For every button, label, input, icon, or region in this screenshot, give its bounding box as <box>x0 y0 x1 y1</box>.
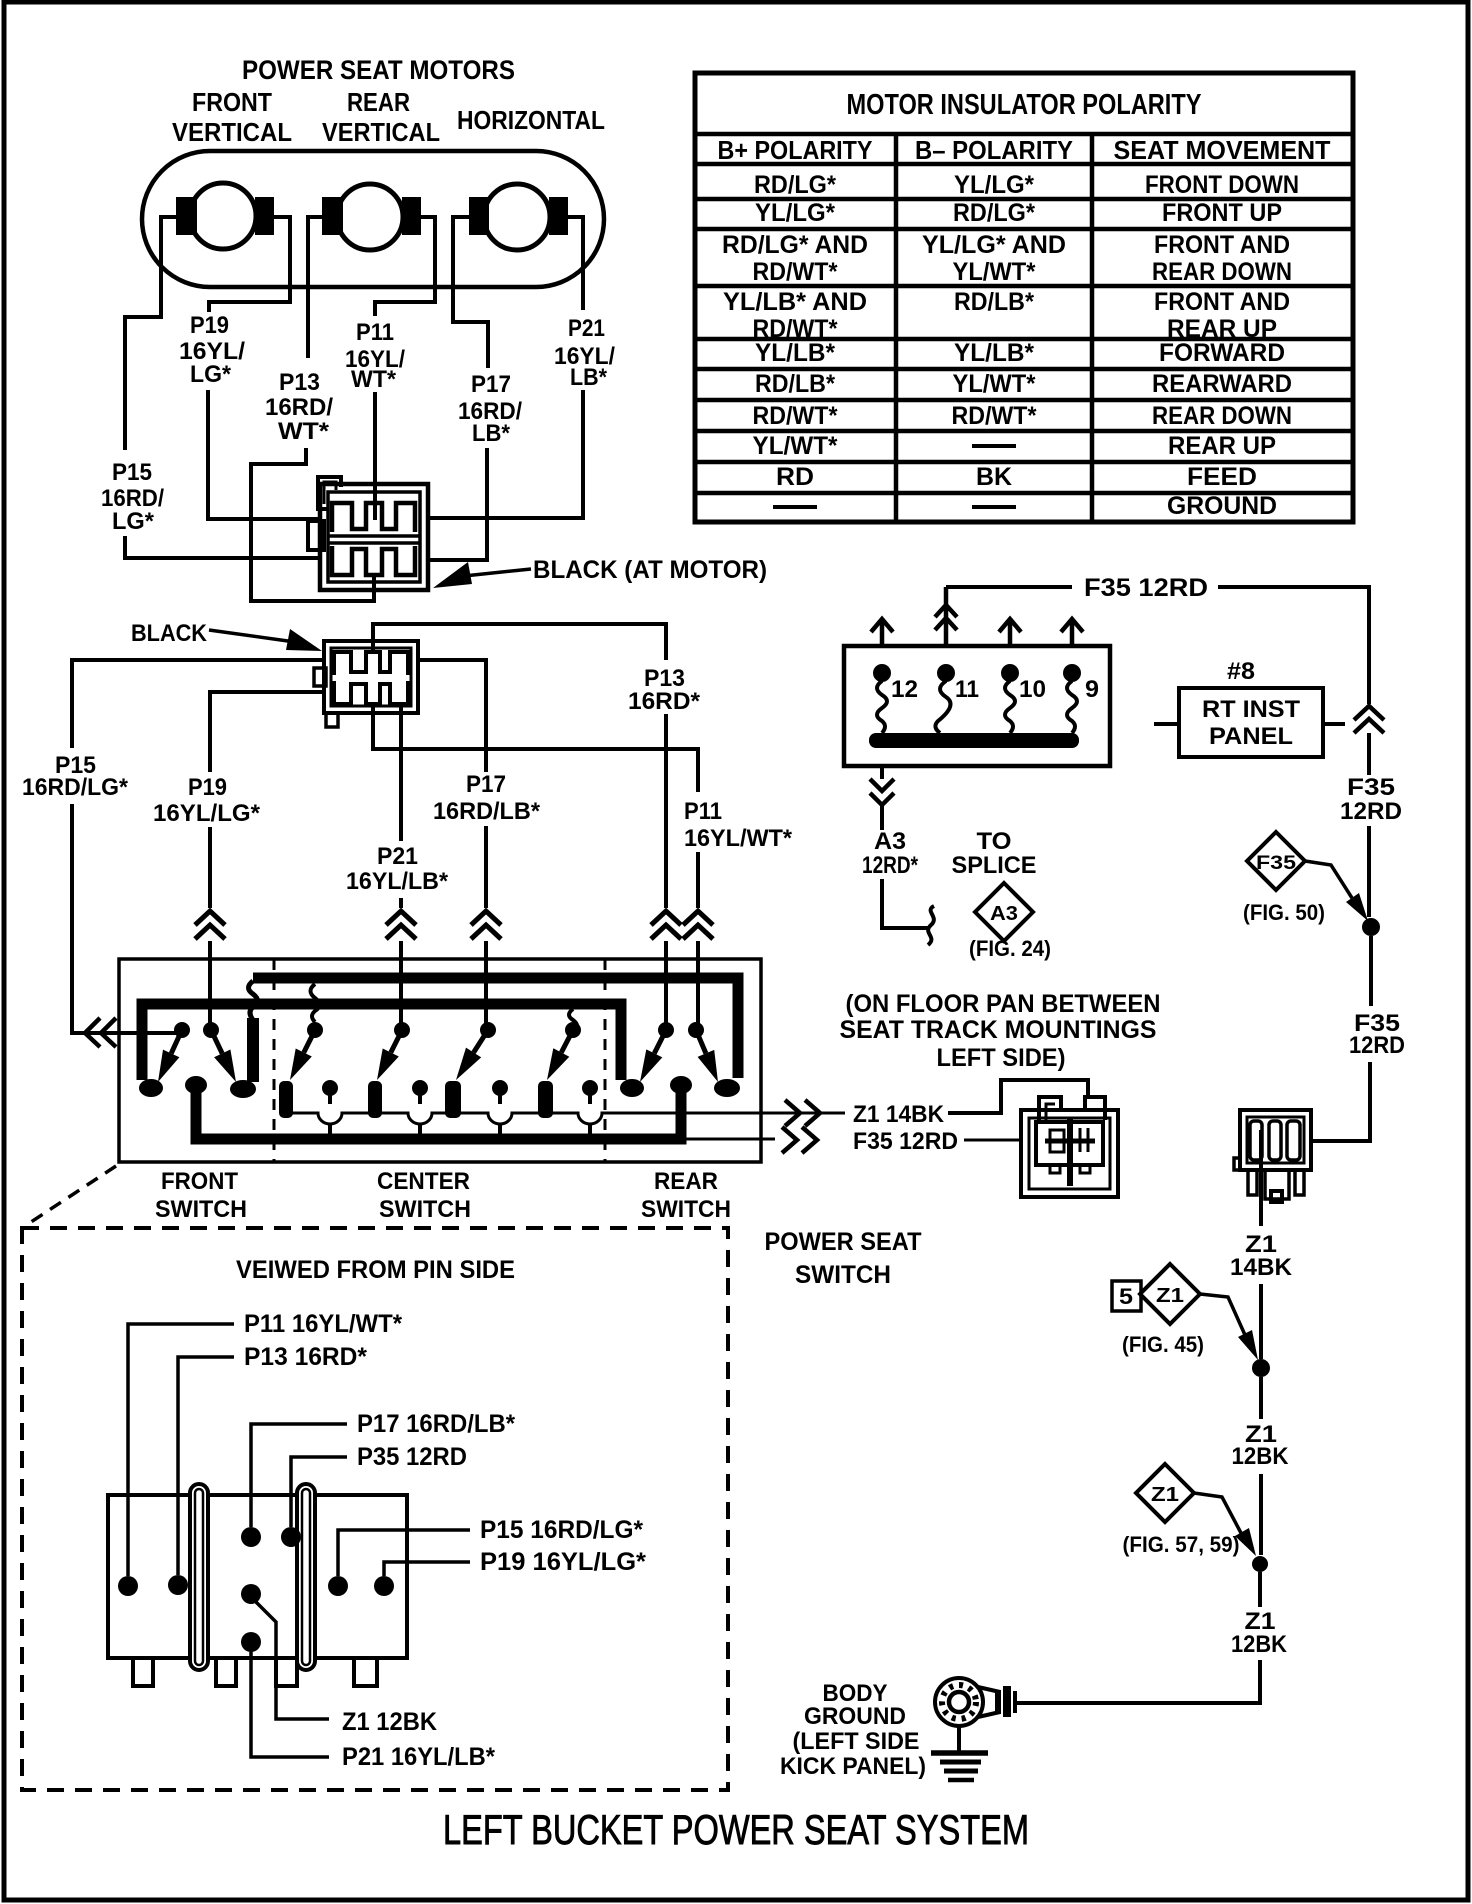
svg-text:POWER SEAT: POWER SEAT <box>765 1228 922 1256</box>
pin-side connector divider slot right <box>297 1484 315 1670</box>
svg-text:YL/LB*: YL/LB* <box>954 339 1034 367</box>
switch pole 6 arrow <box>561 1033 571 1053</box>
arrow Z1 second diamond to junction <box>1194 1493 1241 1533</box>
wire P15 motor1 left to connector C1 <box>125 217 322 558</box>
switch pole 8 arrow <box>697 1033 706 1054</box>
wire P17 motor3 left to connector C1 <box>426 217 488 560</box>
chevrons on Z1 14BK <box>785 1100 820 1126</box>
connector C1 inner shell <box>328 492 420 582</box>
floor pan connector left lock tab <box>1039 1097 1061 1120</box>
wire P19 motor1 right to connector C1 <box>208 217 322 519</box>
floor pan connector outer shell <box>1021 1110 1118 1197</box>
pin-side connector body <box>108 1495 407 1658</box>
svg-text:RD/WT*: RD/WT* <box>952 402 1037 430</box>
svg-text:(FIG. 45): (FIG. 45) <box>1122 1332 1204 1357</box>
svg-text:LEFT SIDE): LEFT SIDE) <box>937 1044 1066 1072</box>
motor M1 right brush <box>255 197 274 235</box>
svg-text:LB*: LB* <box>472 420 511 447</box>
svg-text:WT*: WT* <box>278 418 330 445</box>
svg-text:F35: F35 <box>1347 774 1395 801</box>
svg-text:YL/WT*: YL/WT* <box>953 258 1036 286</box>
pin 9 dot <box>1063 664 1081 682</box>
svg-text:12BK: 12BK <box>1232 1443 1290 1470</box>
arrow to connector C1 <box>433 562 472 588</box>
svg-text:RD: RD <box>776 463 814 491</box>
svg-text:12RD: 12RD <box>1340 798 1402 825</box>
svg-text:RD/LG* AND: RD/LG* AND <box>722 231 868 259</box>
motor M3 left brush <box>469 197 489 235</box>
junction connector slots <box>1250 1121 1262 1160</box>
svg-text:PANEL: PANEL <box>1209 723 1293 750</box>
svg-text:YL/LB*: YL/LB* <box>755 339 835 367</box>
svg-text:YL/WT*: YL/WT* <box>753 432 838 460</box>
connector C2 bottom pin comb <box>334 681 408 704</box>
connector C1 top-left tab <box>318 477 341 509</box>
bus B (second feed bus) <box>142 1004 621 1080</box>
pin 11 dot <box>937 664 955 682</box>
switch pole 4 arrow <box>391 1033 401 1053</box>
svg-text:12: 12 <box>891 676 918 703</box>
svg-text:SWITCH: SWITCH <box>795 1261 891 1289</box>
svg-text:P19: P19 <box>188 774 227 801</box>
motor housing (stadium enclosure) <box>142 151 604 287</box>
splice diamond F35 <box>1247 832 1305 890</box>
svg-text:P13 16RD*: P13 16RD* <box>244 1343 367 1371</box>
svg-text:5: 5 <box>1119 1284 1133 1309</box>
svg-text:(FIG. 24): (FIG. 24) <box>969 936 1051 961</box>
svg-text:RD/WT*: RD/WT* <box>753 258 838 286</box>
svg-text:RD/LG*: RD/LG* <box>754 171 836 199</box>
wire Z1 14BK from junction connector <box>1259 1130 1263 1359</box>
connector C1 bottom pin comb <box>332 546 415 575</box>
svg-text:P11 16YL/WT*: P11 16YL/WT* <box>244 1310 402 1338</box>
svg-text:16RD*: 16RD* <box>628 688 701 715</box>
ground tap dots and stubs <box>322 1080 338 1096</box>
svg-text:FORWARD: FORWARD <box>1159 339 1285 367</box>
wire P19 connector C2 to switch <box>210 692 324 1030</box>
svg-text:F35 12RD: F35 12RD <box>853 1128 958 1155</box>
up arrow pin 10 <box>999 619 1021 646</box>
svg-text:P19: P19 <box>190 312 229 339</box>
svg-text:SWITCH: SWITCH <box>379 1196 471 1223</box>
svg-text:LB*: LB* <box>570 364 608 391</box>
svg-text:P21: P21 <box>568 315 605 342</box>
wire Z1 12BK lower to body ground <box>1017 1572 1260 1703</box>
motor M2 rear vertical <box>337 184 403 250</box>
wire F35 vertical with chevrons <box>1354 706 1384 733</box>
svg-text:LG*: LG* <box>190 361 232 388</box>
junction dot Z1 upper <box>1252 1359 1270 1377</box>
svg-text:BLACK (AT MOTOR): BLACK (AT MOTOR) <box>533 556 767 584</box>
up arrow pin 9 <box>1061 619 1083 646</box>
svg-text:RD/WT*: RD/WT* <box>753 402 838 430</box>
wire P11 motor2 right to connector C1 top <box>375 217 435 520</box>
table grid lines <box>695 134 1353 493</box>
svg-text:WT*: WT* <box>351 366 397 393</box>
detail view dashed box <box>22 1228 728 1790</box>
svg-text:KICK PANEL): KICK PANEL) <box>780 1753 926 1780</box>
switch pole 5 arrow <box>474 1033 487 1053</box>
svg-text:10: 10 <box>1019 676 1046 703</box>
chevron on P15 (left) <box>85 1018 116 1047</box>
svg-text:LG*: LG* <box>112 508 155 535</box>
svg-text:Z1 12BK: Z1 12BK <box>342 1708 437 1736</box>
svg-text:YL/LG*: YL/LG* <box>755 199 835 227</box>
switch pole 3 arrow <box>304 1033 314 1053</box>
arrow to connector C2 <box>286 629 322 651</box>
pin P13 with leader <box>168 1575 188 1595</box>
wire Z1 14BK from switch <box>948 1080 1088 1113</box>
motor M1 front vertical <box>190 183 256 249</box>
svg-text:VERTICAL: VERTICAL <box>172 117 292 147</box>
arrow Z1 diamond to junction <box>1200 1294 1245 1335</box>
bus A tap squiggle to pole 3 <box>311 984 320 1022</box>
pin Z1 with leader <box>241 1584 261 1604</box>
wire P17 connector C2 to switch <box>418 660 486 1030</box>
svg-text:(FIG. 50): (FIG. 50) <box>1243 900 1325 925</box>
svg-text:Z1: Z1 <box>1156 1285 1184 1307</box>
junction connector (Z1/F35) outer shell <box>1240 1110 1311 1170</box>
floor pan connector right lock tab <box>1085 1097 1105 1120</box>
connector C2 left tab <box>314 668 326 686</box>
svg-text:BLACK: BLACK <box>131 620 208 647</box>
svg-text:RT INST: RT INST <box>1202 696 1300 723</box>
motor M3 right brush <box>549 197 568 235</box>
svg-text:FRONT: FRONT <box>161 1168 238 1195</box>
chevron on P11 <box>683 911 713 939</box>
svg-text:P19 16YL/LG*: P19 16YL/LG* <box>480 1548 646 1576</box>
svg-text:P11: P11 <box>356 319 394 346</box>
svg-text:REAR: REAR <box>654 1168 718 1195</box>
switch pole 2 arrow <box>212 1033 222 1054</box>
svg-text:REAR DOWN: REAR DOWN <box>1152 402 1292 430</box>
svg-text:P15: P15 <box>112 459 152 486</box>
wire P13 motor2 left to connector C1 bottom <box>251 217 374 601</box>
splice diamond A3 <box>975 883 1033 941</box>
connector C1 top pin comb <box>332 503 415 532</box>
svg-text:FRONT: FRONT <box>192 87 272 117</box>
wire F35 12RD top run <box>946 587 1369 704</box>
table row 10 <box>773 505 1016 509</box>
svg-text:P15 16RD/LG*: P15 16RD/LG* <box>480 1516 643 1544</box>
svg-text:12BK: 12BK <box>1231 1631 1288 1658</box>
body ground ring terminal <box>935 1678 983 1726</box>
power seat switch block outline <box>119 959 761 1162</box>
svg-text:SWITCH: SWITCH <box>155 1196 247 1223</box>
down chevrons on A3 wire <box>870 779 894 805</box>
bus A (top feed bus) <box>253 978 738 1078</box>
floor pan connector center cross <box>1067 1117 1073 1186</box>
svg-text:P17 16RD/LB*: P17 16RD/LB* <box>357 1410 515 1438</box>
pin P15 with leader <box>328 1576 348 1596</box>
ring terminal barrel and bolt <box>978 1687 1000 1717</box>
pin P19 with leader <box>374 1576 394 1596</box>
svg-text:VERTICAL: VERTICAL <box>322 117 440 147</box>
svg-text:RD/LG*: RD/LG* <box>953 199 1035 227</box>
connector C2 top pin comb <box>334 652 408 675</box>
wire P11 connector C2 to switch <box>373 702 698 1030</box>
svg-text:FRONT UP: FRONT UP <box>1162 199 1282 227</box>
floor pan connector inner shell <box>1029 1118 1110 1189</box>
motor M2 right brush <box>402 197 421 235</box>
Z1 contact line with hops <box>286 1113 845 1124</box>
svg-text:9: 9 <box>1085 676 1099 703</box>
center pole bottom terminals <box>279 1081 293 1118</box>
svg-text:RD/LB*: RD/LB* <box>954 288 1034 316</box>
svg-text:P11: P11 <box>684 798 722 825</box>
wire P13 connector C2 to switch <box>373 624 666 1030</box>
svg-text:FRONT AND: FRONT AND <box>1154 231 1290 259</box>
pin P21 with leader <box>241 1632 261 1652</box>
svg-text:TO: TO <box>977 828 1012 855</box>
up arrow pin 11 with chevrons <box>935 587 957 646</box>
svg-text:16RD/LG*: 16RD/LG* <box>22 774 129 801</box>
svg-text:P17: P17 <box>466 771 506 798</box>
svg-text:P13: P13 <box>279 369 320 396</box>
floor pan connector terminal block <box>1036 1122 1103 1165</box>
wire break squiggle <box>928 906 934 945</box>
chevron on P17 <box>471 911 501 939</box>
svg-text:(LEFT SIDE: (LEFT SIDE <box>793 1728 920 1755</box>
connector C2 inner shell <box>331 648 411 706</box>
junction connector inner shell <box>1247 1117 1304 1163</box>
switch section divider left (dashed) <box>273 959 276 1162</box>
pin-side connector feet <box>133 1658 153 1686</box>
floor pan connector feet <box>1050 1165 1060 1173</box>
wire F35 12RD from switch <box>681 1139 1021 1140</box>
dashed leader from switch block to detail box <box>28 1166 116 1224</box>
pin P17 with leader <box>241 1527 261 1547</box>
wire P21 motor3 right to connector C1 <box>426 217 583 518</box>
svg-text:FEED: FEED <box>1187 463 1257 491</box>
svg-text:12RD: 12RD <box>1349 1032 1405 1059</box>
splice diamond Z1 second <box>1136 1464 1194 1522</box>
seat harness connector box (pins 12-9) <box>844 646 1110 766</box>
svg-text:REARWARD: REARWARD <box>1152 370 1292 398</box>
switch pole 7 arrow <box>654 1033 664 1054</box>
motor M1 left brush <box>176 197 197 235</box>
svg-text:P17: P17 <box>471 371 511 398</box>
chevron on P13 <box>651 911 681 939</box>
bus B tap squiggle to pole 6 <box>569 1009 577 1031</box>
svg-text:RD/LB*: RD/LB* <box>755 370 835 398</box>
svg-text:REAR DOWN: REAR DOWN <box>1152 258 1292 286</box>
connector C2 black at switch: outer shell <box>324 641 418 713</box>
junction connector legs <box>1248 1170 1257 1195</box>
svg-text:(FIG. 57, 59): (FIG. 57, 59) <box>1123 1532 1240 1557</box>
svg-text:Z1 14BK: Z1 14BK <box>853 1101 945 1128</box>
svg-text:16YL/WT*: 16YL/WT* <box>684 825 793 852</box>
wire A3 12RD below pin 12 <box>882 766 928 928</box>
pin P11 with leader <box>118 1576 138 1596</box>
svg-text:16YL/LB*: 16YL/LB* <box>346 868 449 895</box>
svg-text:SEAT TRACK MOUNTINGS: SEAT TRACK MOUNTINGS <box>840 1016 1157 1044</box>
switch pole 1 arrow <box>171 1033 181 1054</box>
svg-text:P35 12RD: P35 12RD <box>357 1443 467 1471</box>
svg-text:VEIWED FROM PIN SIDE: VEIWED FROM PIN SIDE <box>236 1256 515 1284</box>
svg-text:REAR: REAR <box>347 87 410 117</box>
motor M2 left brush <box>322 197 343 235</box>
pin 10 dot <box>1001 664 1019 682</box>
svg-text:11: 11 <box>955 676 979 703</box>
chevron on P21 <box>386 911 416 939</box>
pin 12 dot <box>873 664 891 682</box>
svg-text:16RD/: 16RD/ <box>265 394 333 421</box>
motor M3 horizontal <box>484 184 550 250</box>
svg-text:GROUND: GROUND <box>804 1703 906 1730</box>
svg-text:16YL/LG*: 16YL/LG* <box>153 800 261 827</box>
splice diamond Z1 with 5 box <box>1140 1264 1200 1324</box>
svg-text:YL/WT*: YL/WT* <box>953 370 1036 398</box>
svg-text:LEFT BUCKET POWER SEAT SYSTEM: LEFT BUCKET POWER SEAT SYSTEM <box>443 1806 1029 1853</box>
svg-text:GROUND: GROUND <box>1167 492 1277 520</box>
connector C1 black at motor: outer shell <box>320 484 428 590</box>
connector ground bus bar <box>869 733 1079 748</box>
svg-text:F35: F35 <box>1256 853 1297 874</box>
svg-text:P21 16YL/LB*: P21 16YL/LB* <box>342 1743 495 1771</box>
svg-text:FRONT AND: FRONT AND <box>1154 288 1290 316</box>
svg-text:SPLICE: SPLICE <box>952 852 1037 879</box>
RT INST PANEL box <box>1179 688 1323 757</box>
bus C (bottom ground bus) <box>196 1082 681 1139</box>
RT INST PANEL stub wires <box>1154 722 1345 726</box>
svg-text:(ON FLOOR PAN BETWEEN: (ON FLOOR PAN BETWEEN <box>846 990 1161 1018</box>
svg-text:14BK: 14BK <box>1230 1254 1293 1281</box>
pin P35 with leader <box>281 1527 301 1547</box>
svg-text:B– POLARITY: B– POLARITY <box>915 135 1073 165</box>
svg-text:YL/LG*: YL/LG* <box>954 171 1034 199</box>
svg-text:16RD/LB*: 16RD/LB* <box>433 798 541 825</box>
connector C1 middle band <box>328 536 420 543</box>
svg-text:P21: P21 <box>377 843 418 870</box>
svg-text:MOTOR INSULATOR POLARITY: MOTOR INSULATOR POLARITY <box>847 89 1202 121</box>
connector C2 bottom-left foot <box>326 713 338 727</box>
wire P21 connector C2 to switch <box>399 704 403 1030</box>
junction connector left flange <box>1234 1158 1240 1170</box>
junction dot Z1 lower <box>1252 1556 1268 1572</box>
svg-text:YL/LG* AND: YL/LG* AND <box>922 231 1066 259</box>
table motor insulator polarity: outer border <box>695 73 1353 522</box>
up arrow pin 12 <box>871 619 893 646</box>
pin-side connector divider slot left <box>190 1484 208 1670</box>
svg-text:HORIZONTAL: HORIZONTAL <box>457 105 605 135</box>
connector C1 left tab <box>308 521 324 550</box>
svg-text:REAR UP: REAR UP <box>1168 432 1276 460</box>
svg-text:SEAT MOVEMENT: SEAT MOVEMENT <box>1114 135 1331 165</box>
ground symbol stack <box>957 1726 961 1752</box>
junction dot F35 <box>1362 918 1380 936</box>
svg-text:A3: A3 <box>990 903 1018 925</box>
switch section divider right (dashed) <box>604 959 607 1162</box>
svg-text:YL/LB* AND: YL/LB* AND <box>723 288 867 316</box>
chevron on P19 <box>195 911 225 939</box>
arrow F35 diamond to junction <box>1305 861 1352 898</box>
svg-text:Z1: Z1 <box>1151 1484 1179 1506</box>
svg-text:FRONT DOWN: FRONT DOWN <box>1145 171 1299 199</box>
wire Z1 12BK upper <box>1259 1377 1263 1555</box>
switch pole contact dots <box>174 1022 190 1038</box>
svg-text:BK: BK <box>976 463 1012 491</box>
pin squiggle wires to bus <box>877 681 887 733</box>
svg-text:POWER SEAT MOTORS: POWER SEAT MOTORS <box>242 55 515 85</box>
svg-text:SWITCH: SWITCH <box>641 1196 731 1223</box>
wire P15 connector C2 to switch <box>72 660 324 1033</box>
svg-text:B+ POLARITY: B+ POLARITY <box>718 135 873 165</box>
svg-text:A3: A3 <box>874 828 906 855</box>
svg-text:#8: #8 <box>1227 658 1255 685</box>
svg-text:F35 12RD: F35 12RD <box>1084 574 1208 602</box>
svg-text:12RD*: 12RD* <box>862 852 919 879</box>
chevrons on F35 12RD <box>782 1127 817 1153</box>
svg-text:CENTER: CENTER <box>377 1168 470 1195</box>
